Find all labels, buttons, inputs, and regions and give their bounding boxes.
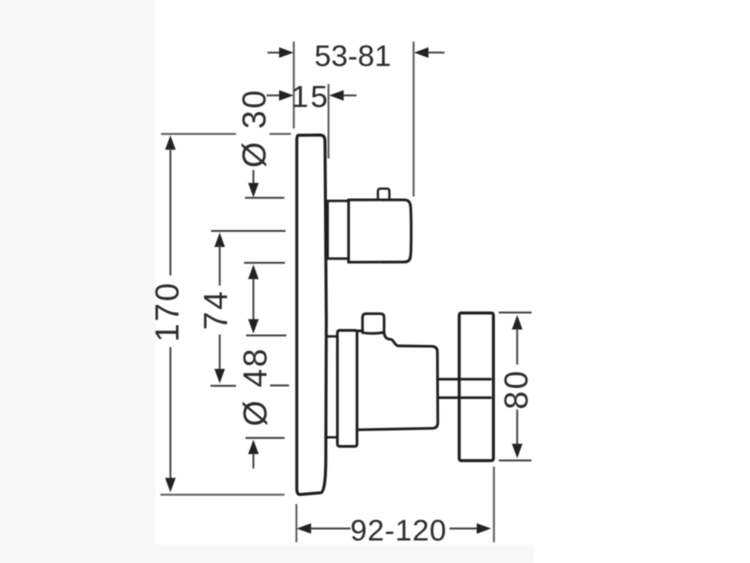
92-120 right extension line <box>493 467 495 543</box>
80 bottom extension tick <box>499 459 532 461</box>
shared stem between Ø30 and Ø48 <box>252 278 254 322</box>
Ø30 upper arrow stem <box>252 170 254 185</box>
80 upper stem <box>516 328 518 364</box>
extension line A (wall face) <box>293 42 295 129</box>
Ø48 upper arrowhead (down) <box>248 319 259 334</box>
74 lower stem <box>219 335 221 371</box>
170 top extension line (left part) <box>161 133 236 135</box>
upper valve top nub <box>378 189 390 200</box>
53-81 right arrow tail <box>428 52 445 54</box>
lower valve sleeve top line <box>327 335 338 337</box>
92-120 left tail <box>310 528 351 530</box>
92-120 left arrowhead (left) <box>297 523 312 534</box>
gray bottom strip <box>0 545 534 563</box>
15 right arrow tail <box>343 94 356 96</box>
svg-text:53-81: 53-81 <box>314 40 391 73</box>
svg-text:Ø 48: Ø 48 <box>237 347 274 427</box>
92-120 left extension line <box>295 504 297 542</box>
extension line C (plate front face) <box>328 84 330 159</box>
74 bottom extension tick (left part) <box>211 385 237 387</box>
170 top arrowhead (up) <box>165 135 176 150</box>
Ø30 lower arrowhead (up) <box>248 265 259 280</box>
Ø48 top extension tick <box>246 334 286 336</box>
15 left arrowhead <box>279 90 294 101</box>
lower valve body outline <box>357 331 438 430</box>
80 top extension tick <box>499 312 532 314</box>
170 top extension line (right part) <box>270 133 292 135</box>
15 right arrowhead <box>329 90 344 101</box>
80 top arrowhead (up) <box>512 315 523 330</box>
53-81 right arrowhead <box>414 47 429 58</box>
Ø48 bottom extension tick <box>246 437 285 439</box>
gray left strip <box>0 0 156 563</box>
lower valve flange <box>337 330 357 446</box>
upper valve neck <box>328 201 349 259</box>
upper valve outline <box>349 200 412 262</box>
170 bottom arrowhead (down) <box>165 478 176 493</box>
svg-text:74: 74 <box>197 289 234 330</box>
53-81 left arrowhead <box>279 47 294 58</box>
svg-text:170: 170 <box>149 281 186 342</box>
74 top extension tick (upper valve centreline) <box>211 230 286 232</box>
74 bottom extension tick (right part) <box>270 384 289 386</box>
74 upper stem <box>219 246 221 286</box>
lower valve sleeve bottom line <box>327 436 338 438</box>
80 bottom arrowhead (down) <box>512 444 523 459</box>
svg-text:80: 80 <box>498 369 535 410</box>
handle stem top line <box>438 378 492 381</box>
Ø48 lower arrowhead (up) <box>248 440 259 455</box>
lower valve dome nub <box>363 314 385 334</box>
Ø30 top extension tick <box>245 197 284 199</box>
svg-text:92-120: 92-120 <box>350 515 446 548</box>
80 lower stem <box>516 410 518 446</box>
svg-text:15: 15 <box>291 79 329 114</box>
svg-text:Ø 30: Ø 30 <box>236 88 273 168</box>
170 lower stem <box>169 347 171 479</box>
53-81 left arrow tail <box>268 52 282 54</box>
handle stem bottom line <box>438 396 492 399</box>
92-120 right tail <box>450 528 479 530</box>
extension line B (knob end) <box>413 42 415 197</box>
92-120 right arrowhead (right) <box>477 523 492 534</box>
74 bottom arrowhead (down) <box>214 369 225 384</box>
Ø30 bottom extension tick <box>244 262 285 264</box>
15 left arrow tail <box>267 94 281 96</box>
74 top arrowhead (up) <box>214 233 225 248</box>
handle bar <box>459 313 493 461</box>
170 upper stem <box>169 149 171 276</box>
Ø48 lower stem <box>252 453 254 469</box>
Ø30 upper arrowhead (down) <box>248 183 259 198</box>
170 bottom extension line <box>161 494 285 496</box>
